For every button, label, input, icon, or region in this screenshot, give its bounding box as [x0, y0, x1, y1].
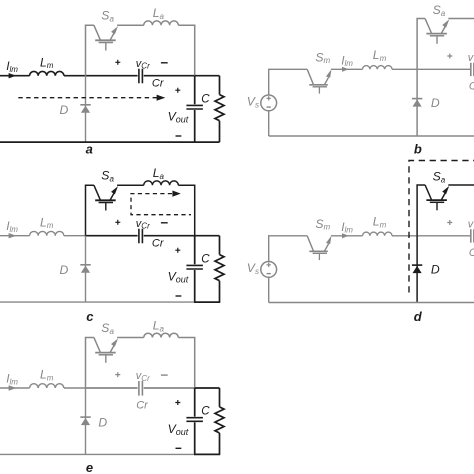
- current arrow Ilm on input wire: [9, 233, 17, 238]
- svg-text:c: c: [86, 309, 94, 324]
- current arrow Ilm: [342, 67, 349, 72]
- wire: La down to output node: [178, 25, 194, 75]
- label plus (Vout): [175, 400, 180, 405]
- svg-text:Cr: Cr: [152, 78, 165, 90]
- wire: junction to vCr capacitor: [417, 68, 470, 70]
- wire: riser to Sa: [417, 185, 425, 236]
- voltage source Vs: [261, 262, 277, 278]
- diode D cathode bar: [80, 104, 90, 106]
- capacitor C plates: [186, 265, 203, 269]
- svg-text:e: e: [86, 460, 93, 474]
- transistor Sa gate lead: [105, 355, 107, 363]
- transistor Sa body bar: [95, 39, 116, 41]
- inductor Lm: [363, 232, 393, 236]
- svg-text:a: a: [86, 142, 93, 157]
- wire: diode branch vertical: [85, 236, 87, 302]
- wire: bottom rail output section: [194, 301, 220, 303]
- wire: bottom rail: [0, 141, 220, 143]
- wire: riser to Sa: [86, 185, 94, 236]
- transistor Sa gate bar: [430, 35, 444, 37]
- voltage source Vs: [261, 95, 277, 111]
- transistor Sm emitter lead with arrow: [325, 77, 329, 84]
- capacitor Cr plates: [139, 229, 143, 244]
- transistor Sa gate bar: [430, 201, 444, 203]
- wire: Sa to La: [117, 24, 144, 26]
- wire: output node down to capacitor C: [194, 236, 196, 302]
- inductor La: [144, 21, 178, 25]
- capacitor vCr left plate (cut by edge): [471, 229, 474, 242]
- wire: Sm to Lm: [331, 235, 363, 237]
- label plus (Vout): [175, 88, 180, 93]
- wire: node to Cr capacitor: [86, 387, 138, 389]
- svg-text:D: D: [431, 263, 440, 277]
- transistor Sa emitter lead with arrow: [110, 191, 115, 200]
- wire: diode branch vertical: [85, 388, 87, 454]
- transistor Sa gate bar: [99, 42, 113, 44]
- diode D triangle: [413, 266, 422, 273]
- wire: Vs to Sm: [269, 236, 308, 262]
- wire: Sm to Lm: [331, 68, 363, 70]
- transistor Sa collector lead: [425, 19, 431, 34]
- svg-text:C: C: [469, 247, 474, 259]
- transistor Sm gate bar: [313, 86, 327, 88]
- wire: La down to output node: [178, 185, 194, 236]
- label plus (vCr): [115, 220, 120, 225]
- Vs minus mark: [267, 273, 271, 275]
- current arrow Ilm on input wire: [9, 385, 17, 390]
- wire: bottom rail output section: [194, 453, 220, 455]
- wire: Sa emitter to right edge: [448, 18, 474, 20]
- svg-text:C: C: [469, 81, 474, 93]
- diode D triangle: [81, 106, 90, 113]
- wire: Sa emitter to right edge: [448, 184, 474, 186]
- diode D cathode bar: [412, 98, 422, 100]
- capacitor C plates: [186, 418, 203, 422]
- current arrow Ilm on input wire: [9, 73, 17, 78]
- wire: riser to Sa: [86, 25, 94, 75]
- label minus (vCr): [161, 62, 168, 64]
- inductor Lm: [30, 71, 64, 75]
- transistor Sa gate lead: [436, 36, 438, 44]
- label plus (vCr): [115, 60, 120, 65]
- svg-text:C: C: [201, 93, 210, 105]
- wire: Vs bottom to rail: [268, 277, 270, 302]
- transistor Sm collector lead: [307, 236, 313, 251]
- label plus (vCr): [447, 220, 452, 225]
- transistor Sm body bar: [309, 250, 328, 252]
- transistor Sa emitter lead with arrow: [110, 343, 115, 352]
- wire: bottom rail: [269, 302, 474, 304]
- wire: Vs bottom to rail: [268, 111, 270, 136]
- label minus (vCr): [161, 222, 168, 224]
- wire: bottom rail left (gray): [0, 301, 195, 303]
- wire: riser to Sa: [417, 19, 425, 70]
- wire: node to Cr capacitor: [86, 75, 138, 77]
- svg-text:C: C: [201, 253, 210, 265]
- wire: Vs to Sm: [269, 69, 308, 95]
- resistor load: [219, 76, 221, 142]
- diode D cathode bar: [80, 264, 90, 266]
- svg-text:Cr: Cr: [136, 400, 149, 412]
- capacitor Cr plates: [139, 381, 143, 396]
- current arrow Ilm: [342, 233, 349, 238]
- wire: Sa to La: [117, 337, 144, 339]
- svg-text:d: d: [414, 309, 423, 324]
- capacitor C plates: [186, 105, 203, 109]
- label minus (Vout): [176, 447, 182, 449]
- wire: Sa to La: [117, 184, 144, 186]
- label minus (Vout): [176, 295, 182, 297]
- transistor Sa body bar: [426, 199, 447, 201]
- wire: input line from left edge to node at x=85.5, y=236: [0, 235, 86, 237]
- Vs minus mark: [267, 106, 271, 108]
- label plus (vCr): [447, 54, 452, 59]
- wire: output node to load resistor top: [195, 235, 220, 237]
- diode D cathode bar: [412, 264, 422, 266]
- transistor Sm gate bar: [313, 252, 327, 254]
- capacitor vCr left plate (cut by edge): [471, 63, 474, 76]
- transistor Sa body bar: [426, 33, 447, 35]
- transistor Sa collector lead: [94, 185, 100, 200]
- Vs plus mark: [267, 96, 271, 100]
- transistor Sa body bar: [95, 199, 116, 201]
- transistor Sa gate lead: [105, 43, 107, 51]
- svg-text:v: v: [468, 218, 474, 230]
- wire: La down to output node: [178, 338, 194, 389]
- transistor Sa emitter lead with arrow: [441, 24, 446, 33]
- wire: riser to Sa: [86, 338, 94, 389]
- label plus (Vout): [175, 248, 180, 253]
- transistor Sa body bar: [95, 352, 116, 354]
- svg-text:D: D: [431, 96, 440, 110]
- wire: Cr to output node: [144, 235, 195, 237]
- inductor Lm: [30, 384, 64, 388]
- transistor Sa gate lead: [105, 203, 107, 211]
- wire: bottom rail: [269, 135, 474, 137]
- svg-text:b: b: [414, 142, 422, 157]
- transistor Sm gate lead: [318, 87, 320, 94]
- svg-text:D: D: [60, 103, 69, 117]
- svg-text:D: D: [60, 263, 69, 277]
- dashed current arrow: [18, 97, 157, 99]
- inductor Lm: [363, 66, 393, 70]
- transistor Sa collector lead: [94, 338, 100, 353]
- transistor Sm body bar: [309, 84, 328, 86]
- wire: junction down through diode to rail: [416, 69, 418, 136]
- label minus (vCr): [161, 374, 168, 376]
- diode D triangle: [413, 99, 422, 106]
- transistor Sm gate lead: [318, 253, 320, 260]
- transistor Sa collector lead: [425, 185, 431, 200]
- wire: Lm to junction node: [392, 68, 417, 70]
- label plus (vCr): [115, 372, 120, 377]
- dashed highlight box: [409, 161, 474, 293]
- wire: Cr to output node: [144, 75, 195, 77]
- dashed current loop: [131, 194, 191, 215]
- wire: junction down through diode to rail: [416, 236, 418, 303]
- wire: input line from left edge to node at x=85.5, y=76: [0, 75, 86, 77]
- inductor La: [144, 181, 178, 185]
- diode D triangle: [81, 266, 90, 273]
- transistor Sa gate bar: [99, 202, 113, 204]
- svg-text:Cr: Cr: [152, 238, 165, 250]
- transistor Sm collector lead: [307, 69, 313, 84]
- svg-text:C: C: [201, 406, 210, 418]
- wire: output node to load resistor top: [195, 75, 220, 77]
- transistor Sm emitter lead with arrow: [325, 244, 329, 251]
- inductor Lm: [30, 231, 64, 235]
- inductor La: [144, 333, 178, 337]
- resistor load: [219, 388, 221, 454]
- svg-text:D: D: [98, 415, 107, 429]
- transistor Sa emitter lead with arrow: [441, 191, 446, 200]
- wire: diode branch vertical: [85, 76, 87, 142]
- transistor Sa gate lead: [436, 202, 438, 210]
- diode D triangle: [81, 418, 90, 425]
- transistor Sa gate bar: [99, 354, 113, 356]
- wire: bottom rail left (gray): [0, 453, 195, 455]
- svg-text:v: v: [468, 52, 474, 64]
- transistor Sa emitter lead with arrow: [110, 31, 115, 40]
- label minus (Vout): [176, 135, 182, 137]
- wire: output node down to capacitor C: [194, 76, 196, 142]
- wire: output node to load resistor top: [195, 387, 220, 389]
- wire: output node down to capacitor C: [194, 388, 196, 454]
- resistor load: [219, 236, 221, 302]
- wire: junction to vCr capacitor: [417, 235, 470, 237]
- Vs plus mark: [267, 263, 271, 267]
- diode D cathode bar: [80, 416, 90, 418]
- wire: Lm to junction node: [392, 235, 417, 237]
- transistor Sa collector lead: [94, 25, 100, 40]
- wire: input line from left edge to node at x=85.5, y=388: [0, 387, 86, 389]
- wire: Cr to output node: [144, 387, 195, 389]
- wire: node to Cr capacitor: [86, 235, 138, 237]
- capacitor Cr plates: [139, 69, 143, 84]
